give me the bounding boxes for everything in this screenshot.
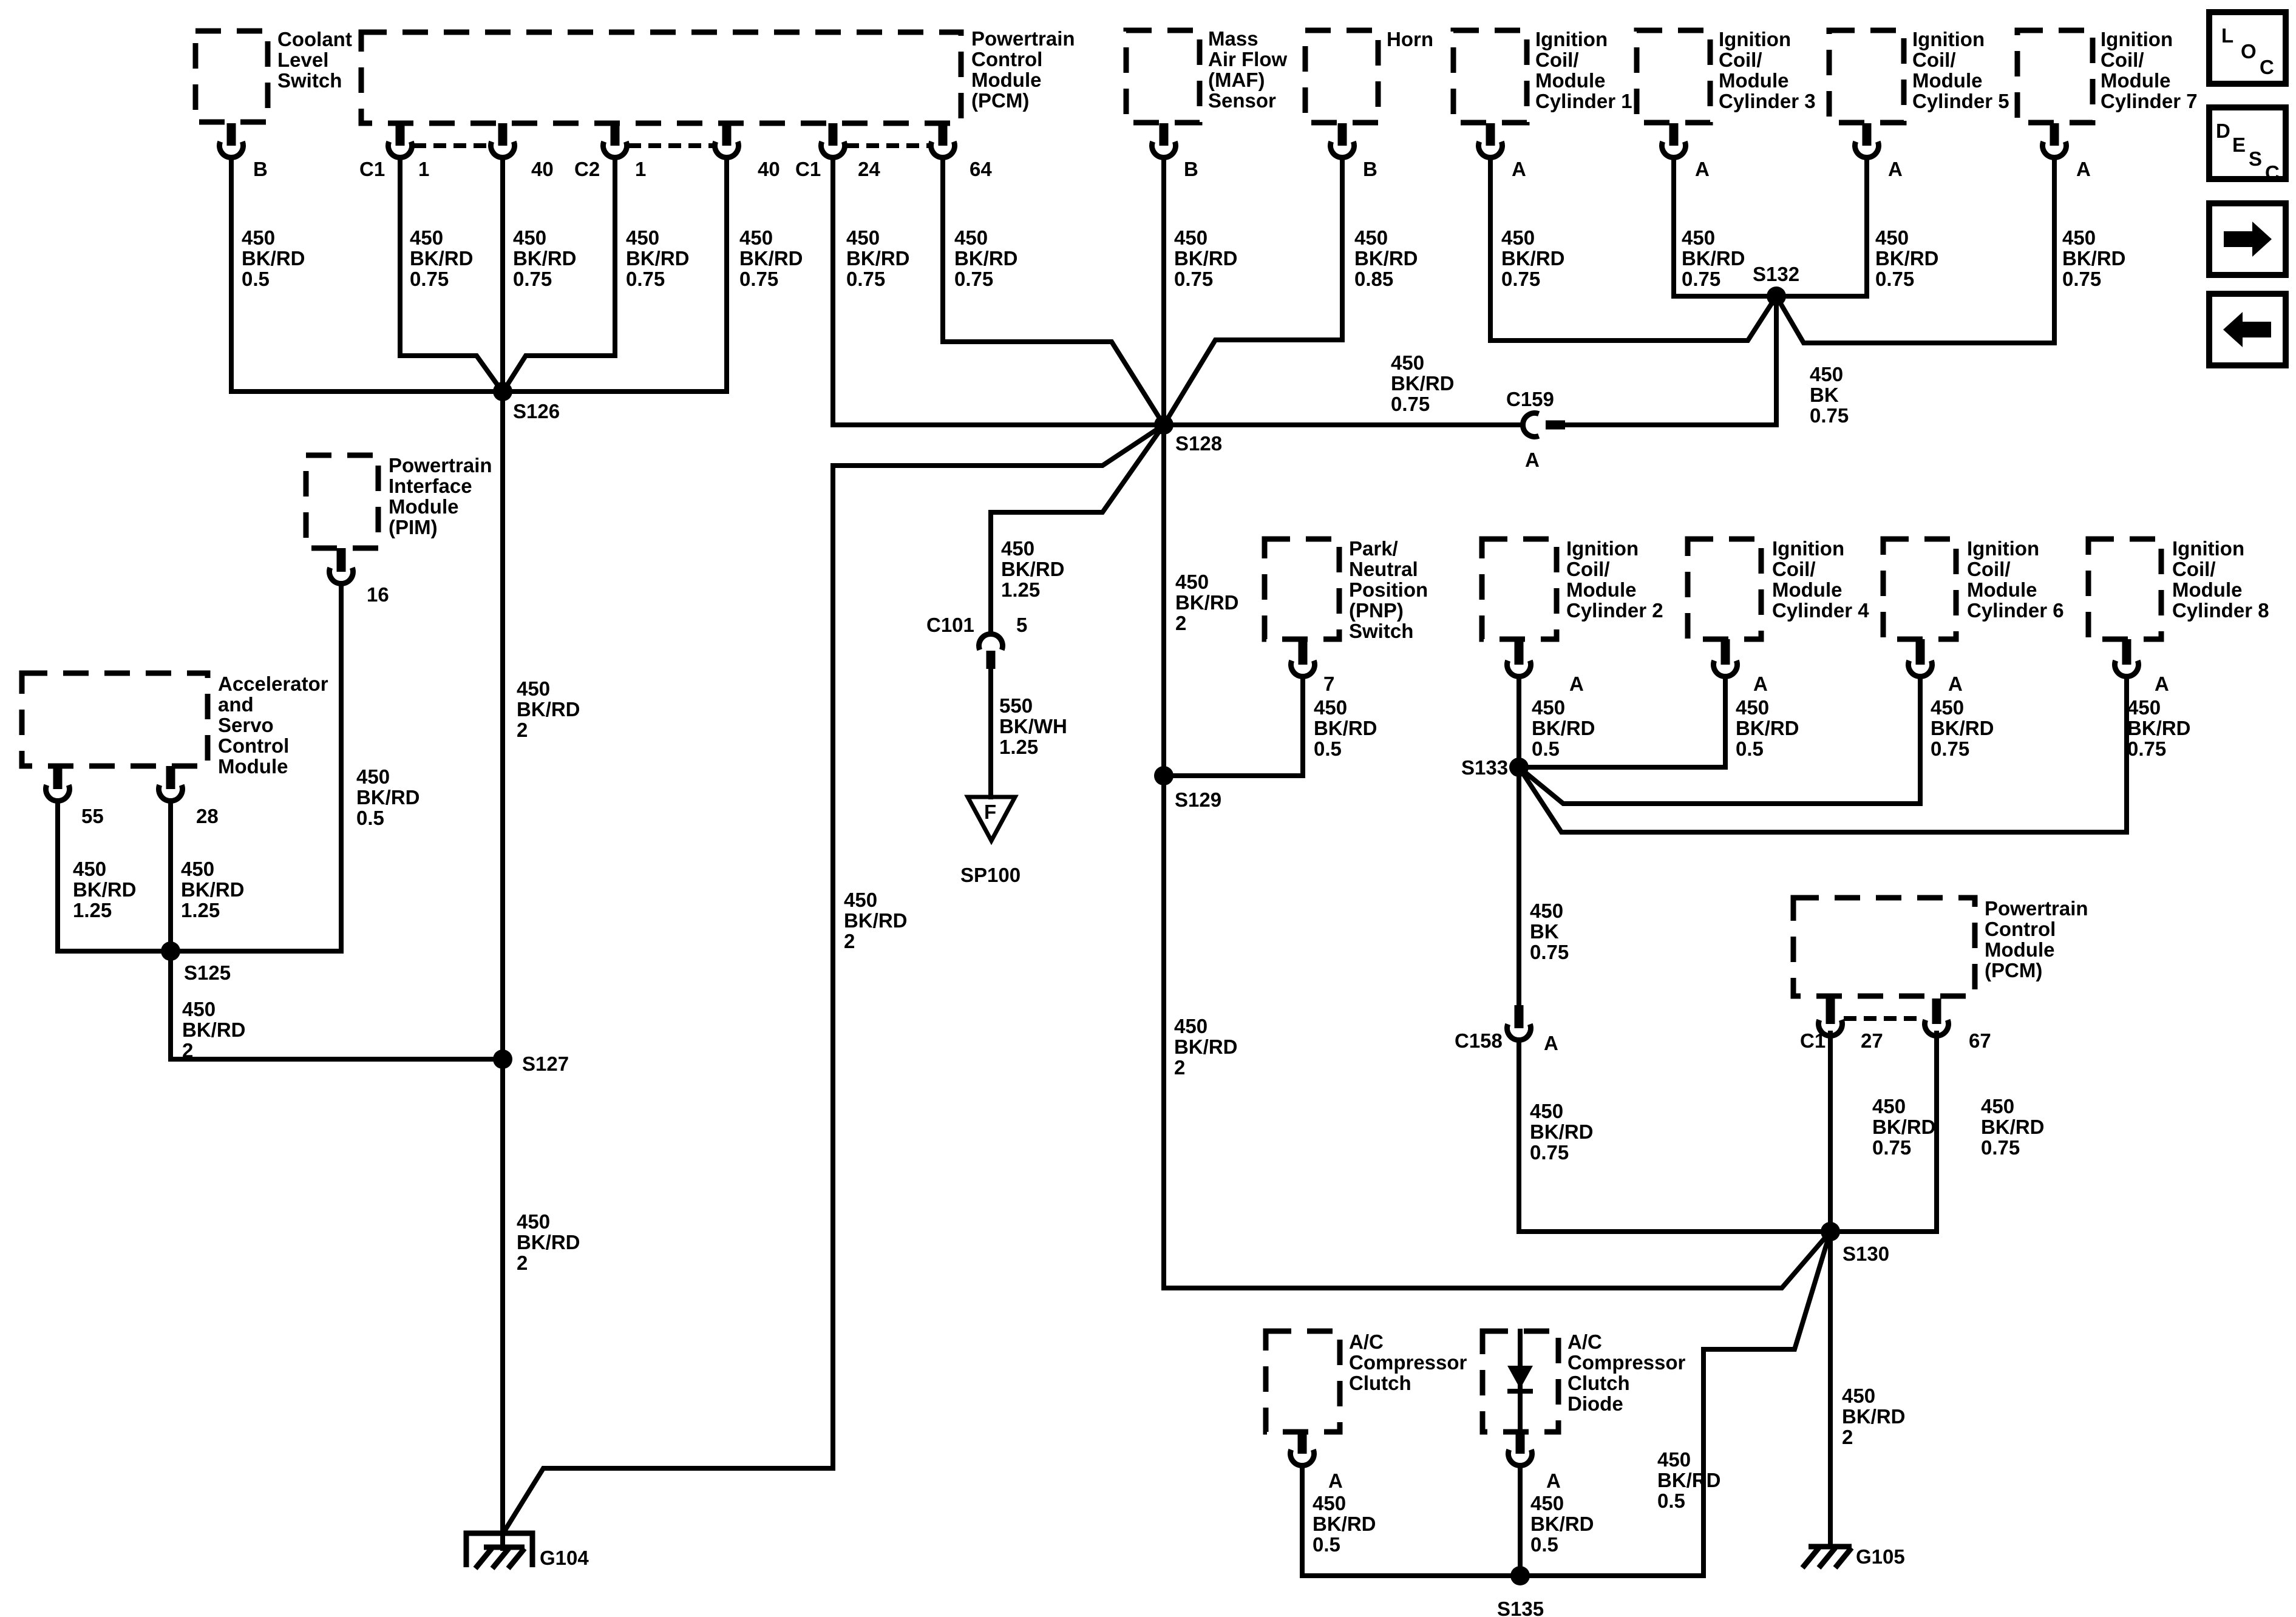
Accel pin 28 <box>159 785 183 801</box>
connector dash line C1 pins 24-64 <box>846 143 929 148</box>
svg-text:BK: BK <box>1530 920 1559 943</box>
svg-text:Module: Module <box>1566 578 1636 601</box>
ground G105 hatch slash 3 <box>1835 1548 1852 1568</box>
svg-text:450: 450 <box>1532 696 1565 719</box>
ground G105 hatch slash 2 <box>1819 1548 1835 1568</box>
svg-text:450: 450 <box>1657 1448 1691 1471</box>
PCM pin C1-24 <box>821 141 845 157</box>
ground G104 hatch slash 1 <box>475 1548 492 1568</box>
svg-text:64: 64 <box>970 158 992 180</box>
component box Ignition Coil Cylinder 3 <box>1637 30 1710 123</box>
junction S133 <box>1509 758 1529 777</box>
svg-text:Coil/: Coil/ <box>1772 558 1816 580</box>
svg-text:Compressor: Compressor <box>1349 1351 1467 1374</box>
svg-text:BK/RD: BK/RD <box>1736 717 1799 739</box>
junction S130 <box>1821 1222 1840 1241</box>
svg-text:Ignition: Ignition <box>1772 537 1844 560</box>
svg-text:(PIM): (PIM) <box>389 516 438 538</box>
svg-text:450: 450 <box>1391 351 1424 374</box>
svg-text:C159: C159 <box>1506 388 1554 410</box>
svg-text:0.75: 0.75 <box>1501 268 1540 290</box>
svg-text:(MAF): (MAF) <box>1208 69 1265 91</box>
svg-text:67: 67 <box>1969 1029 1991 1052</box>
svg-text:O: O <box>2241 40 2257 63</box>
junction S125 <box>161 941 180 961</box>
svg-text:0.75: 0.75 <box>1391 393 1430 415</box>
svg-text:Coil/: Coil/ <box>2101 49 2144 71</box>
wire Cyl2 A to S133 <box>1517 677 1521 767</box>
svg-text:BK/RD: BK/RD <box>1530 1120 1594 1143</box>
svg-text:0.5: 0.5 <box>1736 737 1764 760</box>
wire PCM pin 67 to S130 <box>1830 1033 1937 1232</box>
component box A/C Compressor Clutch Diode <box>1483 1331 1558 1432</box>
svg-text:450: 450 <box>242 226 275 249</box>
svg-text:0.75: 0.75 <box>1530 941 1569 963</box>
svg-text:A: A <box>2155 673 2169 695</box>
svg-text:1: 1 <box>635 158 646 180</box>
ground G105 bar <box>1809 1544 1852 1550</box>
svg-text:Ignition: Ignition <box>2101 28 2173 50</box>
svg-text:BK/WH: BK/WH <box>999 715 1067 737</box>
svg-text:2: 2 <box>1842 1426 1853 1448</box>
ground G104 bracket <box>466 1533 532 1567</box>
wire PCM C1-64 to S128 <box>943 158 1164 425</box>
svg-text:Module: Module <box>1535 69 1605 92</box>
Cyl4 pin A <box>1714 660 1737 676</box>
svg-text:G105: G105 <box>1856 1545 1905 1568</box>
wire Cyl7 A to S132 <box>1776 158 2054 343</box>
svg-text:A: A <box>1695 158 1710 180</box>
svg-text:F: F <box>984 801 996 823</box>
wire Cyl4 A to S133 <box>1519 677 1725 767</box>
wire MAF B through S128 and S129 down then over to S130 <box>1164 158 1830 1288</box>
svg-text:0.5: 0.5 <box>1313 1533 1340 1556</box>
component box Ignition Coil Cylinder 4 <box>1688 539 1761 639</box>
svg-text:S127: S127 <box>522 1053 569 1075</box>
svg-text:40: 40 <box>758 158 780 180</box>
MAF pin B <box>1152 141 1176 157</box>
svg-text:BK/RD: BK/RD <box>517 1231 580 1253</box>
svg-text:450: 450 <box>1314 696 1347 719</box>
svg-text:Cylinder 2: Cylinder 2 <box>1566 599 1663 622</box>
svg-text:Coil/: Coil/ <box>1535 49 1579 71</box>
connector dash line PCM bottom pins 27-67 <box>1844 1016 1923 1021</box>
svg-text:Module: Module <box>1772 578 1842 601</box>
svg-text:BK/RD: BK/RD <box>1981 1116 2045 1138</box>
svg-text:450: 450 <box>1530 900 1563 922</box>
ground G105 hatch slash 1 <box>1802 1548 1819 1568</box>
legend box arrow left <box>2209 294 2286 365</box>
svg-text:Clutch: Clutch <box>1567 1372 1630 1394</box>
svg-text:BK/RD: BK/RD <box>954 247 1018 269</box>
component box PCM (top) <box>361 32 961 123</box>
wire S125 down to S127 <box>171 951 503 1059</box>
svg-text:A: A <box>2076 158 2091 180</box>
svg-text:450: 450 <box>1001 537 1034 560</box>
component box PNP Switch <box>1265 539 1339 639</box>
svg-text:Accelerator: Accelerator <box>218 673 328 695</box>
svg-text:Coil/: Coil/ <box>2172 558 2216 580</box>
svg-text:Diode: Diode <box>1567 1392 1623 1415</box>
svg-text:450: 450 <box>2062 226 2096 249</box>
svg-text:450: 450 <box>181 858 214 880</box>
svg-text:BK/RD: BK/RD <box>2062 247 2126 269</box>
wire Coolant B to S126 <box>229 158 234 392</box>
junction S132 <box>1767 286 1786 306</box>
svg-text:BK/RD: BK/RD <box>1001 558 1065 580</box>
svg-text:A: A <box>1948 673 1963 695</box>
svg-text:Ignition: Ignition <box>1566 537 1639 560</box>
svg-text:Coil/: Coil/ <box>1912 49 1956 71</box>
svg-text:2: 2 <box>1175 612 1186 634</box>
svg-text:Module: Module <box>1719 69 1788 92</box>
wire PCM C2-1 to S126 <box>503 158 615 392</box>
svg-text:(PCM): (PCM) <box>1985 959 2042 981</box>
inline connector C101 cup <box>979 634 1003 649</box>
svg-text:B: B <box>253 158 268 180</box>
diode triangle <box>1507 1366 1533 1389</box>
junction S129 <box>1154 766 1173 785</box>
svg-text:Cylinder 7: Cylinder 7 <box>2101 90 2198 112</box>
svg-text:D: D <box>2216 120 2230 142</box>
svg-text:B: B <box>1363 158 1377 180</box>
svg-text:Clutch: Clutch <box>1349 1372 1411 1394</box>
svg-text:S132: S132 <box>1753 263 1799 285</box>
wire S128 to C159 <box>1164 422 1523 427</box>
component box Accelerator and Servo Control Module <box>22 673 208 766</box>
wire S130 down to G105 <box>1828 1232 1833 1547</box>
component box A/C Compressor Clutch <box>1266 1331 1340 1432</box>
svg-text:BK/RD: BK/RD <box>517 698 580 720</box>
svg-text:Powertrain: Powertrain <box>971 27 1075 50</box>
svg-text:450: 450 <box>954 226 988 249</box>
svg-text:E: E <box>2232 134 2246 156</box>
connector dash line C2 pins 1-40 <box>628 143 714 148</box>
svg-text:S130: S130 <box>1843 1242 1889 1265</box>
component box Ignition Coil Cylinder 6 <box>1883 539 1956 639</box>
svg-text:Module: Module <box>218 755 288 778</box>
svg-text:BK: BK <box>1810 384 1839 406</box>
svg-text:0.75: 0.75 <box>513 268 552 290</box>
svg-text:Powertrain: Powertrain <box>389 454 492 476</box>
svg-text:BK/RD: BK/RD <box>181 878 245 901</box>
inline connector C159 cup <box>1523 413 1538 437</box>
wire PCM C2-40 to S126 bus <box>724 158 729 392</box>
svg-text:Module: Module <box>1912 69 1982 92</box>
component box PCM (bottom) <box>1793 898 1975 996</box>
Cyl8 pin A <box>2114 660 2138 676</box>
PCM bottom pin 67 <box>1925 1020 1949 1036</box>
svg-text:SP100: SP100 <box>960 864 1021 886</box>
svg-text:16: 16 <box>367 583 389 606</box>
svg-text:450: 450 <box>517 677 550 700</box>
svg-text:BK/RD: BK/RD <box>1842 1405 1906 1428</box>
svg-text:450: 450 <box>1682 226 1715 249</box>
svg-text:and: and <box>218 693 254 716</box>
junction S126 <box>493 382 512 401</box>
wire C101 to SP100 <box>988 666 993 797</box>
svg-text:BK/RD: BK/RD <box>844 909 908 932</box>
PCM pin C2-40 <box>715 141 739 157</box>
svg-text:0.75: 0.75 <box>2062 268 2101 290</box>
svg-text:0.75: 0.75 <box>1875 268 1914 290</box>
svg-text:450: 450 <box>1530 1100 1563 1122</box>
svg-text:Module: Module <box>1985 938 2054 961</box>
svg-text:BK/RD: BK/RD <box>356 786 420 808</box>
svg-text:A: A <box>1569 673 1584 695</box>
svg-text:BK/RD: BK/RD <box>182 1019 246 1041</box>
svg-text:Module: Module <box>2172 578 2242 601</box>
svg-text:1.25: 1.25 <box>181 899 220 921</box>
svg-text:Servo: Servo <box>218 714 274 736</box>
svg-text:A: A <box>1525 449 1540 471</box>
svg-text:Ignition: Ignition <box>1912 28 1985 50</box>
PCM pin C2-1 <box>603 141 627 157</box>
svg-text:450: 450 <box>1174 1015 1207 1037</box>
svg-text:450: 450 <box>1175 571 1209 593</box>
component box Ignition Coil Cylinder 8 <box>2088 539 2161 639</box>
svg-text:C1: C1 <box>795 158 821 180</box>
svg-text:2: 2 <box>1174 1056 1185 1079</box>
svg-text:1.25: 1.25 <box>1001 578 1040 601</box>
svg-text:BK/RD: BK/RD <box>73 878 137 901</box>
svg-text:Cylinder 5: Cylinder 5 <box>1912 90 2009 112</box>
svg-text:BK/RD: BK/RD <box>410 247 474 269</box>
svg-text:S133: S133 <box>1461 756 1508 779</box>
svg-text:Switch: Switch <box>277 69 342 92</box>
wire S132 down leg to C159 <box>1565 296 1776 425</box>
wire PIM 16 to S125 bus <box>339 584 344 951</box>
svg-text:Cylinder 8: Cylinder 8 <box>2172 599 2269 622</box>
Cyl7 pin A <box>2043 141 2067 157</box>
svg-text:Cylinder 3: Cylinder 3 <box>1719 90 1816 112</box>
svg-text:450: 450 <box>1810 363 1843 385</box>
svg-text:BK/RD: BK/RD <box>1175 591 1239 614</box>
svg-text:0.75: 0.75 <box>626 268 665 290</box>
component box PIM <box>306 455 378 548</box>
wire Cyl1 A to S132 <box>1490 158 1776 341</box>
svg-text:Neutral: Neutral <box>1349 558 1418 580</box>
svg-text:0.5: 0.5 <box>242 268 270 290</box>
wire S128 branch 450 BK/RD 2 riser down to G104 <box>504 425 1164 1532</box>
wire A/C clutch A to S135 <box>1302 1466 1520 1576</box>
svg-text:Coil/: Coil/ <box>1967 558 2011 580</box>
svg-text:0.5: 0.5 <box>356 807 384 829</box>
svg-text:450: 450 <box>1981 1095 2014 1117</box>
svg-text:Park/: Park/ <box>1349 537 1398 560</box>
svg-text:450: 450 <box>739 226 773 249</box>
Cyl5 pin A <box>1855 141 1879 157</box>
svg-text:Ignition: Ignition <box>1535 28 1608 50</box>
legend box LOC <box>2209 12 2286 84</box>
component box Ignition Coil Cylinder 2 <box>1482 539 1557 639</box>
svg-text:S129: S129 <box>1175 788 1221 811</box>
svg-text:Ignition: Ignition <box>2172 537 2244 560</box>
svg-text:0.75: 0.75 <box>1810 404 1849 427</box>
Cyl1 pin A <box>1478 141 1502 157</box>
svg-text:A/C: A/C <box>1567 1331 1602 1353</box>
svg-text:450: 450 <box>844 889 877 911</box>
svg-text:0.75: 0.75 <box>1530 1141 1569 1164</box>
svg-text:S135: S135 <box>1497 1598 1544 1617</box>
svg-text:(PNP): (PNP) <box>1349 599 1404 622</box>
svg-text:Control: Control <box>971 48 1042 70</box>
svg-text:0.75: 0.75 <box>410 268 449 290</box>
svg-text:55: 55 <box>81 805 104 827</box>
wire S133 down to C158 <box>1517 767 1521 1005</box>
svg-text:0.75: 0.75 <box>1981 1136 2020 1159</box>
Cyl3 pin A <box>1662 141 1686 157</box>
svg-text:C2: C2 <box>574 158 600 180</box>
ground G104 inner bar <box>484 1545 525 1550</box>
svg-text:C1: C1 <box>1800 1029 1826 1052</box>
wire PCM pin 27 to S130 <box>1828 1033 1833 1232</box>
wire Horn B to S128 <box>1164 158 1342 425</box>
svg-text:Cylinder 4: Cylinder 4 <box>1772 599 1869 622</box>
svg-text:1.25: 1.25 <box>999 736 1038 758</box>
svg-text:A/C: A/C <box>1349 1331 1384 1353</box>
svg-text:Coil/: Coil/ <box>1719 49 1762 71</box>
component box MAF Sensor <box>1126 30 1200 123</box>
svg-text:Interface: Interface <box>389 475 472 497</box>
svg-text:0.75: 0.75 <box>1682 268 1720 290</box>
svg-text:Cylinder 6: Cylinder 6 <box>1967 599 2064 622</box>
svg-text:2: 2 <box>182 1039 193 1062</box>
svg-text:0.75: 0.75 <box>954 268 993 290</box>
A/C clutch pin A <box>1291 1449 1314 1465</box>
svg-text:27: 27 <box>1861 1029 1883 1052</box>
component box Horn <box>1305 30 1378 123</box>
svg-text:450: 450 <box>1313 1492 1346 1514</box>
svg-text:Control: Control <box>218 734 289 757</box>
svg-text:450: 450 <box>1875 226 1909 249</box>
svg-text:2: 2 <box>517 1252 528 1274</box>
svg-text:BK/RD: BK/RD <box>1174 1036 1238 1058</box>
svg-text:550: 550 <box>999 694 1033 717</box>
svg-text:450: 450 <box>1736 696 1769 719</box>
svg-text:BK/RD: BK/RD <box>513 247 577 269</box>
svg-text:450: 450 <box>182 998 216 1020</box>
svg-text:24: 24 <box>858 158 880 180</box>
svg-text:5: 5 <box>1016 614 1027 636</box>
svg-text:Air Flow: Air Flow <box>1208 48 1287 70</box>
svg-text:G104: G104 <box>540 1547 589 1569</box>
svg-text:Module: Module <box>1967 578 2037 601</box>
svg-text:0.75: 0.75 <box>739 268 778 290</box>
junction S135 <box>1510 1566 1530 1585</box>
svg-text:450: 450 <box>2127 696 2161 719</box>
svg-text:450: 450 <box>1872 1095 1906 1117</box>
svg-text:450: 450 <box>517 1210 550 1233</box>
PCM pin C1-64 <box>931 141 954 157</box>
svg-text:40: 40 <box>531 158 554 180</box>
component box Coolant Level Switch <box>195 31 268 122</box>
PNP pin 7 <box>1291 660 1315 676</box>
svg-text:A: A <box>1328 1470 1343 1492</box>
svg-text:BK/RD: BK/RD <box>1313 1513 1376 1535</box>
junction S127 <box>493 1049 512 1069</box>
svg-text:C: C <box>2265 161 2280 184</box>
svg-text:450: 450 <box>513 226 546 249</box>
svg-text:7: 7 <box>1323 673 1334 695</box>
svg-text:S126: S126 <box>513 400 560 422</box>
wire Cyl6 A to S133 <box>1519 677 1920 804</box>
svg-text:C101: C101 <box>926 614 974 636</box>
component box Ignition Coil Cylinder 1 <box>1453 30 1527 123</box>
svg-text:C158: C158 <box>1455 1029 1503 1052</box>
svg-text:450: 450 <box>1354 226 1388 249</box>
svg-text:Switch: Switch <box>1349 620 1413 642</box>
component box Ignition Coil Cylinder 5 <box>1829 30 1904 123</box>
svg-text:2: 2 <box>844 930 855 952</box>
svg-text:BK/RD: BK/RD <box>242 247 305 269</box>
svg-text:BK/RD: BK/RD <box>1314 717 1377 739</box>
svg-text:0.5: 0.5 <box>1657 1490 1685 1512</box>
svg-text:Module: Module <box>2101 69 2170 92</box>
svg-text:A: A <box>1888 158 1903 180</box>
ground G104 hatch slash 3 <box>508 1548 525 1568</box>
legend arrow right <box>2224 231 2252 247</box>
svg-text:0.75: 0.75 <box>2127 737 2166 760</box>
svg-text:C1: C1 <box>359 158 385 180</box>
Horn pin B <box>1331 141 1354 157</box>
connector dash line C1 pins 1-40 <box>413 143 489 148</box>
svg-text:Coolant: Coolant <box>277 28 352 50</box>
svg-text:Ignition: Ignition <box>1719 28 1791 50</box>
A/C diode pin A <box>1509 1449 1532 1465</box>
wire PCM C1-24 to S128 <box>833 158 1164 425</box>
wire Accel 28 to S125 <box>168 801 173 951</box>
svg-text:A: A <box>1544 1032 1558 1054</box>
svg-text:BK/RD: BK/RD <box>1657 1469 1721 1491</box>
svg-text:BK/RD: BK/RD <box>1391 372 1455 395</box>
svg-text:2: 2 <box>517 719 528 741</box>
legend box DESC <box>2209 107 2286 179</box>
svg-text:BK/RD: BK/RD <box>1875 247 1939 269</box>
Cyl2 pin A <box>1507 660 1531 676</box>
PIM pin 16 <box>330 568 353 583</box>
svg-text:28: 28 <box>196 805 219 827</box>
svg-text:450: 450 <box>410 226 443 249</box>
wire S126 horizontal bus <box>231 389 727 394</box>
wire PCM C1-1 to S126 <box>400 158 503 392</box>
svg-text:S125: S125 <box>184 961 231 984</box>
svg-text:BK/RD: BK/RD <box>626 247 690 269</box>
svg-text:BK/RD: BK/RD <box>1174 247 1238 269</box>
svg-text:S: S <box>2249 147 2262 170</box>
svg-text:BK/RD: BK/RD <box>1532 717 1595 739</box>
svg-text:Sensor: Sensor <box>1208 89 1276 112</box>
svg-text:BK/RD: BK/RD <box>2127 717 2191 739</box>
component box Ignition Coil Cylinder 7 <box>2017 30 2093 123</box>
svg-text:Module: Module <box>389 495 458 518</box>
svg-text:Powertrain: Powertrain <box>1985 897 2088 920</box>
svg-text:Compressor: Compressor <box>1567 1351 1686 1374</box>
ground G104 hatch slash 2 <box>492 1548 509 1568</box>
wire S130 branch down to S135 <box>1520 1232 1830 1576</box>
svg-text:450: 450 <box>73 858 106 880</box>
svg-text:A: A <box>1512 158 1526 180</box>
legend box arrow right <box>2209 203 2286 275</box>
svg-text:450: 450 <box>1501 226 1535 249</box>
PCM pin C1-1 <box>389 141 412 157</box>
svg-text:450: 450 <box>626 226 659 249</box>
Coolant pin B <box>220 141 243 157</box>
wire PCM C1-40 through S126 and S127 down to G104 <box>500 158 505 1548</box>
svg-text:0.5: 0.5 <box>1314 737 1342 760</box>
svg-text:BK/RD: BK/RD <box>1354 247 1418 269</box>
diode bar <box>1507 1389 1533 1394</box>
